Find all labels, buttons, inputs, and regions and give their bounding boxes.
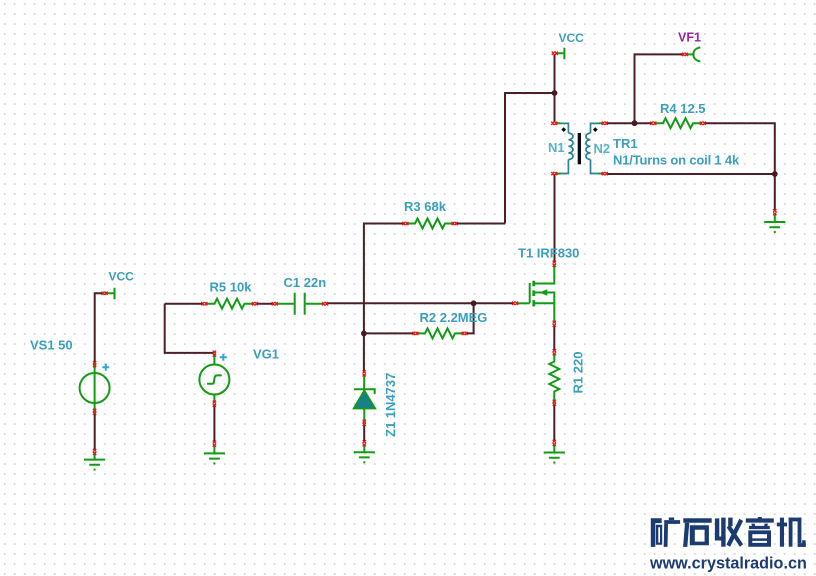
svg-text:TR1: TR1: [613, 136, 638, 151]
plus sign VG1: [220, 354, 227, 361]
wire transformer N2 bottom to right rail: [607, 173, 775, 175]
svg-text:R5 10k: R5 10k: [210, 280, 253, 295]
svg-text:R3 68k: R3 68k: [404, 199, 447, 214]
svg-text:VF1: VF1: [678, 31, 701, 45]
wire VS1 bottom to ground: [94, 413, 96, 451]
polarity dot N1: [561, 127, 566, 132]
resistor R2 2.2MEG: [417, 328, 464, 338]
wire VG1 bottom to ground: [213, 404, 215, 442]
wire zener bottom to ground: [363, 425, 365, 442]
wire corner to R5 left: [165, 303, 203, 305]
svg-text:VS1 50: VS1 50: [30, 338, 73, 353]
resistor R3 68k: [407, 219, 454, 229]
wire R1 bottom to ground: [553, 405, 555, 442]
wire transformer N2 top to R4 left: [607, 122, 653, 124]
svg-text:www.crystalradio.cn: www.crystalradio.cn: [649, 555, 807, 573]
wire VG1 top L corner: [165, 304, 214, 353]
svg-text:R4 12.5: R4 12.5: [660, 101, 706, 116]
char shou: [715, 518, 719, 540]
wire R3 left to vertical node: [364, 224, 405, 372]
wire R4 right to right rail down to ground: [704, 123, 775, 210]
wire node to R2 left: [364, 332, 414, 334]
wire VCC top to transformer N1 top (net VCC): [554, 54, 556, 123]
ground under Z1: [354, 452, 375, 462]
junction dot right rail: [772, 171, 778, 177]
svg-text:R2 2.2MEG: R2 2.2MEG: [420, 310, 488, 325]
resistor R5 10k: [206, 299, 255, 309]
char shi: [683, 518, 711, 523]
wire VS1 top to VCC terminal: [95, 293, 102, 362]
svg-text:VG1: VG1: [253, 347, 279, 362]
ground under R1: [544, 453, 565, 463]
char ji: [780, 518, 784, 547]
wire mosfet source to R1 top: [553, 326, 555, 351]
wire transformer N1 bottom to mosfet drain: [554, 174, 556, 262]
VF1 terminal: [687, 47, 700, 61]
junction dot VF1 node: [632, 120, 638, 126]
junction dot VCC rail: [552, 90, 558, 96]
svg-text:C1 22n: C1 22n: [284, 275, 327, 290]
svg-text:N2: N2: [594, 141, 611, 156]
transistor T1 IRF830 n-mosfet: [517, 264, 555, 322]
svg-text:R1 220: R1 220: [571, 352, 586, 394]
char yin: [758, 517, 762, 520]
voltage generator VG1: [199, 354, 229, 404]
wire VCC junction to left corner: [505, 93, 555, 224]
wire R2 right to gate net: [466, 303, 474, 333]
VCC terminal (left, above VS1): [105, 288, 115, 300]
svg-text:N1/Turns on coil 1 4k: N1/Turns on coil 1 4k: [613, 153, 740, 168]
svg-text:T1 IRF830: T1 IRF830: [518, 246, 579, 261]
resistor R1 220 (vertical): [549, 353, 559, 404]
logo chinese characters: [651, 517, 806, 547]
transformer core: [578, 133, 581, 164]
ground under VG1: [204, 453, 225, 463]
svg-text:N1: N1: [548, 140, 565, 155]
voltage source VS1: [80, 364, 110, 413]
polarity dot N2: [593, 127, 598, 132]
svg-text:Z1 1N4737: Z1 1N4737: [383, 373, 398, 437]
resistor R4 12.5: [654, 118, 702, 128]
plus sign VS1: [102, 364, 109, 371]
svg-text:VCC: VCC: [559, 31, 585, 45]
wire R5 right to C1 left: [257, 303, 274, 305]
svg-text:VCC: VCC: [109, 270, 135, 284]
transformer TR1: [560, 123, 600, 173]
zener diode Z1 1N4737: [354, 376, 375, 424]
ground under VS1: [84, 460, 105, 470]
VCC terminal (top, above transformer): [556, 48, 564, 60]
char kuang: [651, 518, 662, 547]
junction dot zener node: [361, 331, 367, 337]
junction dot gate node: [471, 300, 477, 306]
wire R3 right to corner: [456, 223, 505, 225]
wire C1 right to mosfet gate: [327, 302, 514, 304]
ground right rail (under R4 net): [764, 222, 785, 232]
capacitor C1 22n: [276, 293, 324, 315]
wire VF1 terminal to R4 net: [635, 54, 684, 123]
